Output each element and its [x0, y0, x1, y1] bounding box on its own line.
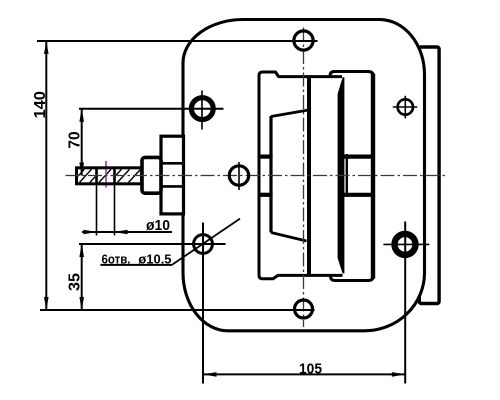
- svg-text:140: 140: [32, 91, 49, 119]
- svg-text:35: 35: [66, 273, 83, 291]
- svg-text:70: 70: [67, 131, 84, 148]
- svg-text:105: 105: [299, 361, 322, 378]
- svg-text:ø10.5: ø10.5: [138, 253, 171, 267]
- svg-text:6отв.: 6отв.: [102, 253, 131, 267]
- svg-text:ø10: ø10: [146, 217, 170, 234]
